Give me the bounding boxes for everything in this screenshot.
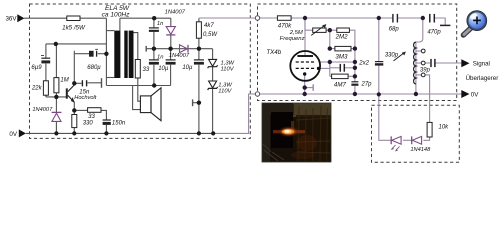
zener diode 1,3W 110V upper (208, 59, 218, 68)
junction node at 378.8,94.4 (377, 92, 381, 96)
wire 1n lower cap leads (153, 49, 155, 60)
wire tap2 stub (416, 62, 422, 64)
wire coil body line (415, 42, 417, 84)
wire chassis stub lead (193, 102, 199, 104)
terminal stub bar near speaker (192, 99, 194, 106)
svg-text:1,3W: 1,3W (218, 82, 232, 88)
junction node at 153.9,48.7 (152, 47, 156, 51)
dashed enclosure box right (oscillator unit) (258, 4, 457, 101)
wire secondary top stub to 33 (134, 33, 138, 60)
svg-text:10µ: 10µ (158, 66, 169, 72)
svg-text:TX4b: TX4b (266, 49, 281, 56)
svg-text:22k: 22k (31, 85, 43, 91)
wire tap2 to 39p (425, 62, 430, 64)
resistor 22k (43, 81, 48, 95)
tube cathode dot (303, 72, 306, 75)
svg-text:10µ: 10µ (182, 65, 193, 71)
wire diode link (403, 139, 412, 141)
terminal stub bar 15n (101, 78, 103, 88)
labels left box (5, 5, 234, 138)
wire corner into coil top (416, 18, 423, 42)
wire diode branch upper (55, 97, 57, 112)
svg-text:0V: 0V (471, 91, 479, 98)
tap circle 2 (421, 61, 425, 65)
svg-text:680µ: 680µ (87, 65, 101, 71)
wire middle HV rail (146, 48, 212, 50)
wire 0V return to oscillator (213, 94, 257, 133)
junction node at 213.2,133.4 (211, 131, 215, 135)
wire grid cap left lead (330, 67, 340, 69)
magnifier icon (463, 11, 487, 35)
svg-text:1n: 1n (157, 54, 163, 60)
wire rail drop to primary bar top (119, 18, 121, 30)
resistor 1k5/5W (67, 16, 80, 21)
junction node at 74.3,110.4 (72, 108, 76, 112)
wire 470p to ground (435, 18, 445, 25)
svg-text:110V: 110V (221, 66, 235, 72)
wire 1n top cap to HV rail (153, 32, 155, 49)
wire 10µ cap bottom (170, 65, 172, 86)
variable arrow 330p (394, 52, 406, 61)
transformer secondary winding bar (129, 31, 134, 78)
wire primary bracket bottom (106, 77, 114, 79)
resistor 3M3 (335, 46, 351, 51)
svg-text:470p: 470p (427, 30, 441, 36)
wire 1n top column (153, 18, 155, 28)
labels right box (266, 23, 498, 154)
wire 6µ9 bottom to 22k (45, 64, 47, 81)
junction node at 154.2,85.5 (152, 83, 156, 87)
wire 2M2 right corner (349, 30, 355, 48)
capacitor 1n top (149, 28, 159, 32)
zener diode 1,3W 110V lower (208, 81, 218, 90)
ground bar 470p (440, 24, 450, 26)
wire 4M7 right lead (348, 75, 355, 77)
svg-text:Hochvolt: Hochvolt (74, 95, 97, 101)
dashed enclosure box left (amplifier unit) (30, 4, 251, 138)
junction dots left box (54, 16, 216, 135)
wire 10µ cap leads (170, 49, 172, 60)
wire tap3 to 10k (425, 75, 430, 123)
svg-text:36V: 36V (5, 15, 17, 22)
transformer primary winding bar (114, 31, 120, 78)
wire tank cap column (378, 18, 380, 61)
tap circle 1 (421, 49, 425, 53)
svg-text:Signal: Signal (473, 61, 490, 68)
output arrow 0V right (461, 90, 469, 98)
wire 4k7 top lead (198, 18, 200, 22)
terminal stub bar secondary (145, 46, 147, 52)
svg-text:2M2: 2M2 (335, 34, 349, 41)
wire 22k bottom lead (45, 95, 47, 97)
resistor 10k (427, 122, 432, 137)
resistor 330 (72, 115, 77, 128)
capacitor 15n Hochvolt (82, 80, 86, 86)
svg-text:1N4148: 1N4148 (410, 147, 431, 153)
capacitor 27p (351, 82, 358, 86)
diode 1N4007 top vertical (166, 27, 175, 35)
junction node at 198.9,133.4 (197, 131, 201, 135)
wire right rail upper (354, 49, 356, 82)
capacitor 10µ lower (166, 60, 176, 65)
capacitor grid coupling (340, 64, 344, 72)
diode D2 1N4148 (412, 136, 422, 144)
svg-text:330: 330 (83, 121, 94, 127)
svg-text:4k7: 4k7 (204, 23, 214, 29)
tube TX4b (290, 51, 320, 81)
wire 10k bottom to diodes (423, 137, 429, 140)
resistor 4M7 (332, 74, 349, 79)
wire zener column top (212, 49, 214, 60)
wire 36V top rail (24, 17, 106, 19)
junction node at 170.6,48.7 (168, 47, 172, 51)
svg-text:1n: 1n (157, 21, 163, 27)
dashed enclosure sub-box bottom right (limiter) (372, 105, 460, 162)
wire speaker lower feed (133, 86, 141, 110)
transformer core bar (124, 31, 127, 78)
junction node at 354.9,67.8 (353, 66, 357, 70)
wire base line (46, 96, 66, 98)
svg-text:150n: 150n (112, 121, 126, 127)
wire pot to 2M2 (326, 29, 337, 31)
wire right rail lower (354, 86, 356, 94)
wire 10µ output cap bottom to 0V (198, 65, 200, 134)
wire tap3 stub (416, 74, 422, 76)
wire cathode down (304, 74, 306, 94)
wire zener middle link (212, 67, 214, 81)
wire 4M7 left lead (330, 75, 332, 77)
wire 33 resistor to 150n (101, 110, 106, 120)
wire 1n lower cap bottom (153, 65, 155, 86)
wire 39p to signal out (435, 62, 461, 64)
junction node at 198.9,48.7 (197, 47, 201, 51)
wire cathode stub lead (305, 87, 313, 89)
capacitor 10µ output (194, 60, 204, 65)
wire tap1 stub (416, 50, 422, 52)
junction node at 329.8,48.6 (328, 46, 332, 50)
junction node at 154.2,18.2 (152, 16, 156, 20)
svg-text:Frequenz: Frequenz (280, 36, 305, 42)
potentiometer 2,5M Frequenz (311, 24, 326, 35)
wire zener bottom to 0V (212, 88, 214, 133)
wire 3M3 right lead (351, 48, 355, 50)
wire 150n bottom lead (105, 125, 107, 133)
junction node at 354.9,48.6 (353, 46, 357, 50)
wire 3M3 left lead (330, 48, 335, 50)
resistor 33 speaker (135, 60, 140, 79)
wire pot branch (305, 18, 313, 30)
wire bias rail to primary (46, 43, 107, 45)
svg-text:39p: 39p (420, 67, 431, 73)
wire collector vertical (73, 51, 75, 84)
wire lower horizontal to caps (106, 85, 170, 87)
resistor 470k (277, 16, 291, 20)
wire grid node vertical (329, 62, 331, 76)
svg-text:Überlagerer: Überlagerer (466, 75, 499, 82)
svg-text:110V: 110V (218, 89, 232, 95)
resistor 1M (54, 78, 59, 93)
junction node at 415.9,94 (414, 92, 418, 96)
capacitor 680µ (89, 49, 98, 56)
photo of glowing tube (262, 103, 331, 162)
svg-text:0,5W: 0,5W (203, 32, 218, 38)
wire HV link to oscillator (199, 17, 278, 19)
svg-text:2x2: 2x2 (358, 60, 369, 66)
wire diode branch lower (55, 122, 57, 134)
tube pin dot (317, 67, 320, 70)
svg-text:1,3W: 1,3W (221, 60, 235, 66)
wire speaker upper feed (138, 78, 141, 101)
wire 680µ left lead (74, 53, 89, 55)
junction node at 304.7,87.6 (303, 85, 307, 89)
wire emitter to 33 resistor (74, 109, 87, 111)
svg-text:33: 33 (88, 114, 95, 120)
input arrow 0V left (19, 129, 26, 137)
input arrow 36V (17, 14, 24, 22)
junction node at 354.9,76.3 (353, 74, 357, 78)
svg-text:6µ9: 6µ9 (31, 65, 42, 71)
diode D1 1N4148 with arrows (391, 136, 401, 151)
pass-through circle HT (255, 16, 259, 20)
junction node at 74.3,83.3 (72, 81, 76, 85)
svg-text:3M3: 3M3 (335, 54, 348, 61)
wire 36V drop to transformer primary (105, 18, 107, 85)
wire oscillator HT rail (258, 17, 423, 19)
junction node at 378.8,18 (377, 16, 381, 20)
junction node at 305,18 (303, 16, 307, 20)
capacitor 39p (431, 59, 435, 67)
svg-text:330p: 330p (385, 53, 399, 59)
junction node at 329.8,30.2 (328, 28, 332, 32)
svg-text:27p: 27p (361, 82, 373, 88)
junction dots right box (303, 16, 425, 97)
wire grid cap right lead (345, 67, 355, 69)
svg-text:68p: 68p (389, 27, 400, 33)
svg-text:1N4007: 1N4007 (165, 10, 186, 16)
junction node at 106.4,133.4 (104, 131, 108, 135)
svg-text:1N4007: 1N4007 (169, 53, 190, 59)
wire 0V rail oscillator (258, 93, 462, 95)
capacitor 470p top (430, 14, 435, 23)
wire pot junction down to 3M3 (329, 30, 331, 48)
wire 1M top lead (55, 44, 57, 78)
pass-through circle 0V (255, 92, 259, 96)
wire 10µ output cap top (198, 49, 200, 60)
loudspeaker LS (140, 88, 161, 121)
wire 330 bottom lead (73, 128, 75, 134)
capacitor 68p (393, 14, 398, 23)
svg-text:10k: 10k (439, 124, 450, 130)
capacitor 2x2 tank (375, 62, 383, 66)
wire 15n left lead (74, 82, 81, 84)
junction node at 354.9,62 (353, 60, 357, 64)
wire tank cap column lower (378, 65, 380, 94)
svg-text:1M: 1M (60, 78, 68, 84)
resistor 2M2 (337, 28, 350, 32)
wire top diode to HV rail (170, 35, 172, 49)
wire primary bracket top (106, 30, 114, 32)
junction node at 74.3,133.4 (72, 131, 76, 135)
junction node at 422.8,18 (421, 16, 425, 20)
output arrow Signal (461, 59, 469, 67)
junction node at 56.4,133.4 (54, 131, 58, 135)
wire 4k7 bottom lead (198, 38, 200, 49)
wire screen lead (319, 67, 330, 69)
svg-text:1k5 /5W: 1k5 /5W (62, 25, 86, 32)
junction node at 56.4,96.9 (54, 95, 58, 99)
junction node at 106.4,53.8 (104, 52, 108, 56)
svg-text:0V: 0V (9, 131, 17, 138)
terminal stub bar cathode (312, 84, 314, 91)
diode 1N4007 bottom left (52, 112, 62, 121)
junction node at 198.9,102.7 (197, 101, 201, 105)
capacitor 1n lower (149, 60, 159, 65)
wire 0V bottom rail (26, 132, 214, 134)
svg-text:1N4007: 1N4007 (32, 107, 53, 113)
wire 680µ right lead (98, 53, 107, 55)
wire 1M bottom lead (55, 93, 57, 97)
wire grid line (319, 61, 355, 63)
wire anode lead (304, 18, 306, 56)
transistor Q1 (66, 85, 75, 103)
svg-text:470k: 470k (278, 23, 292, 30)
svg-text:ca 100Hz: ca 100Hz (102, 11, 131, 18)
wire limiter return to 0V (379, 94, 391, 140)
wire emitter vertical (73, 102, 75, 114)
capacitor C 6µ9 (41, 56, 50, 64)
junction node at 354.9,94 (353, 92, 357, 96)
resistor 33 emitter (88, 108, 101, 113)
svg-text:33: 33 (143, 67, 150, 73)
capacitor 150n (103, 120, 111, 125)
wire 6µ9 top lead (45, 44, 47, 58)
resistor 4k7 0,5W (196, 22, 201, 38)
junction node at 55.8,43.9 (54, 42, 58, 46)
tap circle 3 (421, 73, 425, 77)
junction node at 304.7,94 (303, 92, 307, 96)
wire 15n right lead (87, 82, 101, 84)
diode 1N4007 series HV (180, 45, 189, 53)
junction node at 329.8,62 (328, 60, 332, 64)
coil L1 with taps (414, 42, 416, 84)
svg-text:4M7: 4M7 (334, 82, 347, 89)
wire HV winding rail (120, 17, 171, 19)
wire rail corner into top diode (170, 18, 172, 26)
wire coil bottom to 0V (415, 84, 417, 94)
